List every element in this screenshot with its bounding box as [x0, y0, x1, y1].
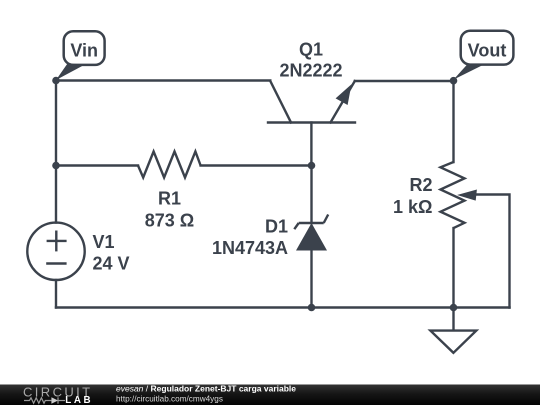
svg-text:R1: R1: [158, 189, 181, 209]
svg-text:evesan / Regulador Zenet-BJT c: evesan / Regulador Zenet-BJT carga varia…: [116, 384, 296, 394]
svg-text:LAB: LAB: [65, 395, 93, 405]
svg-text:1 kΩ: 1 kΩ: [393, 197, 432, 217]
svg-text:V1: V1: [93, 232, 115, 252]
svg-text:R2: R2: [409, 175, 432, 195]
svg-text:2N2222: 2N2222: [279, 61, 342, 81]
svg-text:D1: D1: [265, 217, 288, 237]
svg-text:Vout: Vout: [468, 41, 507, 61]
svg-text:Vin: Vin: [70, 41, 98, 61]
svg-text:1N4743A: 1N4743A: [212, 238, 288, 258]
svg-text:Q1: Q1: [299, 40, 323, 60]
svg-text:873 Ω: 873 Ω: [145, 211, 194, 231]
svg-text:24 V: 24 V: [93, 254, 130, 274]
svg-text:http://circuitlab.com/cmw4ygs: http://circuitlab.com/cmw4ygs: [116, 395, 223, 404]
